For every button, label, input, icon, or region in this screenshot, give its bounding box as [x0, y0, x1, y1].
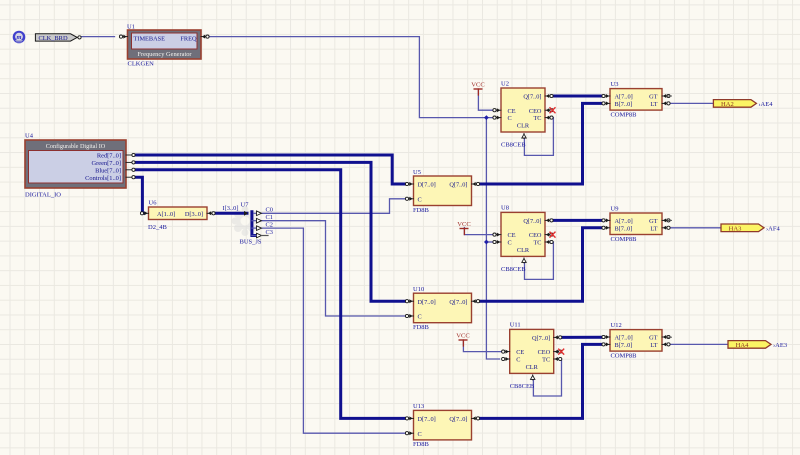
svg-text:CB8CEB: CB8CEB — [510, 383, 535, 390]
svg-text:VCC: VCC — [456, 333, 470, 340]
svg-text:Q[7..0]: Q[7..0] — [449, 416, 467, 423]
svg-text:VCC: VCC — [457, 221, 471, 228]
svg-text:›AF4: ›AF4 — [766, 225, 780, 232]
svg-text:B[7..0]: B[7..0] — [615, 225, 633, 232]
svg-text:U1: U1 — [127, 23, 135, 30]
svg-text:C: C — [508, 115, 512, 122]
svg-text:U2: U2 — [501, 80, 509, 87]
svg-text:DIGITAL_IO: DIGITAL_IO — [25, 192, 61, 199]
svg-text:HA4: HA4 — [736, 342, 750, 349]
svg-text:TIMEBASE: TIMEBASE — [134, 36, 166, 43]
svg-text:GT: GT — [649, 335, 658, 342]
svg-text:CLR: CLR — [517, 123, 530, 130]
svg-text:CEO: CEO — [529, 232, 542, 239]
svg-text:A[1..0]: A[1..0] — [157, 211, 175, 218]
svg-text:A[7..0]: A[7..0] — [615, 335, 633, 342]
svg-text:FD8B: FD8B — [413, 207, 430, 214]
svg-text:Q[7..0]: Q[7..0] — [449, 299, 467, 306]
svg-text:›AE3: ›AE3 — [773, 342, 787, 349]
svg-text:VCC: VCC — [471, 82, 485, 89]
svg-text:COMP8B: COMP8B — [611, 236, 638, 243]
svg-text:BUS_JS: BUS_JS — [240, 239, 262, 246]
svg-text:C: C — [418, 196, 422, 203]
svg-text:C: C — [418, 314, 422, 321]
svg-text:B[7..0]: B[7..0] — [615, 342, 633, 349]
svg-text:B[7..0]: B[7..0] — [615, 101, 633, 108]
svg-text:CLK_BRD: CLK_BRD — [38, 35, 68, 42]
svg-text:C2: C2 — [266, 222, 273, 229]
svg-text:›AE4: ›AE4 — [758, 101, 773, 108]
svg-text:GT: GT — [649, 94, 658, 101]
svg-text:CB8CEB: CB8CEB — [501, 266, 526, 273]
svg-text:A[7..0]: A[7..0] — [615, 218, 633, 225]
svg-text:U13: U13 — [413, 403, 424, 410]
svg-text:U8: U8 — [501, 205, 509, 212]
svg-text:U5: U5 — [413, 169, 421, 176]
svg-text:C0: C0 — [266, 207, 273, 214]
svg-text:CE: CE — [508, 232, 516, 239]
svg-text:LT: LT — [650, 342, 657, 349]
svg-text:U10: U10 — [413, 286, 424, 293]
svg-text:HA2: HA2 — [721, 101, 734, 108]
svg-text:CB8CEB: CB8CEB — [501, 142, 526, 149]
svg-text:Controls[1..0]: Controls[1..0] — [85, 175, 121, 182]
svg-text:Q[7..0]: Q[7..0] — [523, 94, 541, 101]
svg-text:I[3..0]: I[3..0] — [223, 205, 239, 212]
svg-text:CEO: CEO — [529, 108, 542, 115]
svg-text:FD8B: FD8B — [413, 441, 430, 448]
svg-text:FD8B: FD8B — [413, 324, 430, 331]
svg-text:CLKGEN: CLKGEN — [128, 61, 155, 68]
svg-text:HA3: HA3 — [729, 225, 743, 232]
svg-text:D[7..0]: D[7..0] — [418, 299, 436, 306]
svg-text:U11: U11 — [510, 322, 521, 329]
svg-text:Q[7..0]: Q[7..0] — [523, 218, 541, 225]
svg-text:Q[7..0]: Q[7..0] — [532, 335, 550, 342]
svg-text:U4: U4 — [25, 133, 34, 140]
svg-text:Red[7..0]: Red[7..0] — [97, 153, 121, 160]
svg-text:Configurable Digital IO: Configurable Digital IO — [46, 143, 106, 150]
svg-text:Blue[7..0]: Blue[7..0] — [95, 167, 121, 174]
svg-text:U6: U6 — [149, 200, 158, 207]
svg-text:D[3..0]: D[3..0] — [185, 211, 203, 218]
svg-text:CEO: CEO — [538, 349, 551, 356]
svg-text:COMP8B: COMP8B — [611, 111, 638, 118]
svg-text:U7: U7 — [241, 202, 250, 209]
svg-text:Frequency Generator: Frequency Generator — [137, 51, 192, 58]
svg-text:C1: C1 — [266, 214, 273, 221]
svg-text:C3: C3 — [266, 229, 273, 236]
svg-text:U3: U3 — [611, 81, 619, 88]
svg-text:FREQ: FREQ — [180, 36, 197, 43]
svg-text:D[7..0]: D[7..0] — [418, 182, 436, 189]
svg-text:Green[7..0]: Green[7..0] — [92, 160, 121, 167]
svg-text:D[7..0]: D[7..0] — [418, 416, 436, 423]
svg-text:C: C — [418, 431, 422, 438]
svg-text:CLR: CLR — [526, 364, 539, 371]
svg-text:U12: U12 — [611, 322, 622, 329]
svg-text:TC: TC — [533, 115, 541, 122]
svg-text:C: C — [516, 357, 520, 364]
svg-text:D2_4B: D2_4B — [148, 224, 167, 231]
svg-text:COMP8B: COMP8B — [611, 352, 638, 359]
svg-text:CE: CE — [508, 108, 516, 115]
svg-text:Q[7..0]: Q[7..0] — [449, 182, 467, 189]
svg-text:C: C — [508, 240, 512, 247]
svg-text:LT: LT — [650, 101, 657, 108]
svg-text:LT: LT — [650, 225, 657, 232]
svg-text:CLR: CLR — [517, 247, 530, 254]
svg-text:A[7..0]: A[7..0] — [615, 94, 633, 101]
svg-text:CE: CE — [516, 349, 524, 356]
svg-text:GT: GT — [649, 218, 658, 225]
svg-text:U9: U9 — [611, 205, 619, 212]
svg-text:TC: TC — [533, 240, 541, 247]
svg-text:TC: TC — [542, 357, 550, 364]
